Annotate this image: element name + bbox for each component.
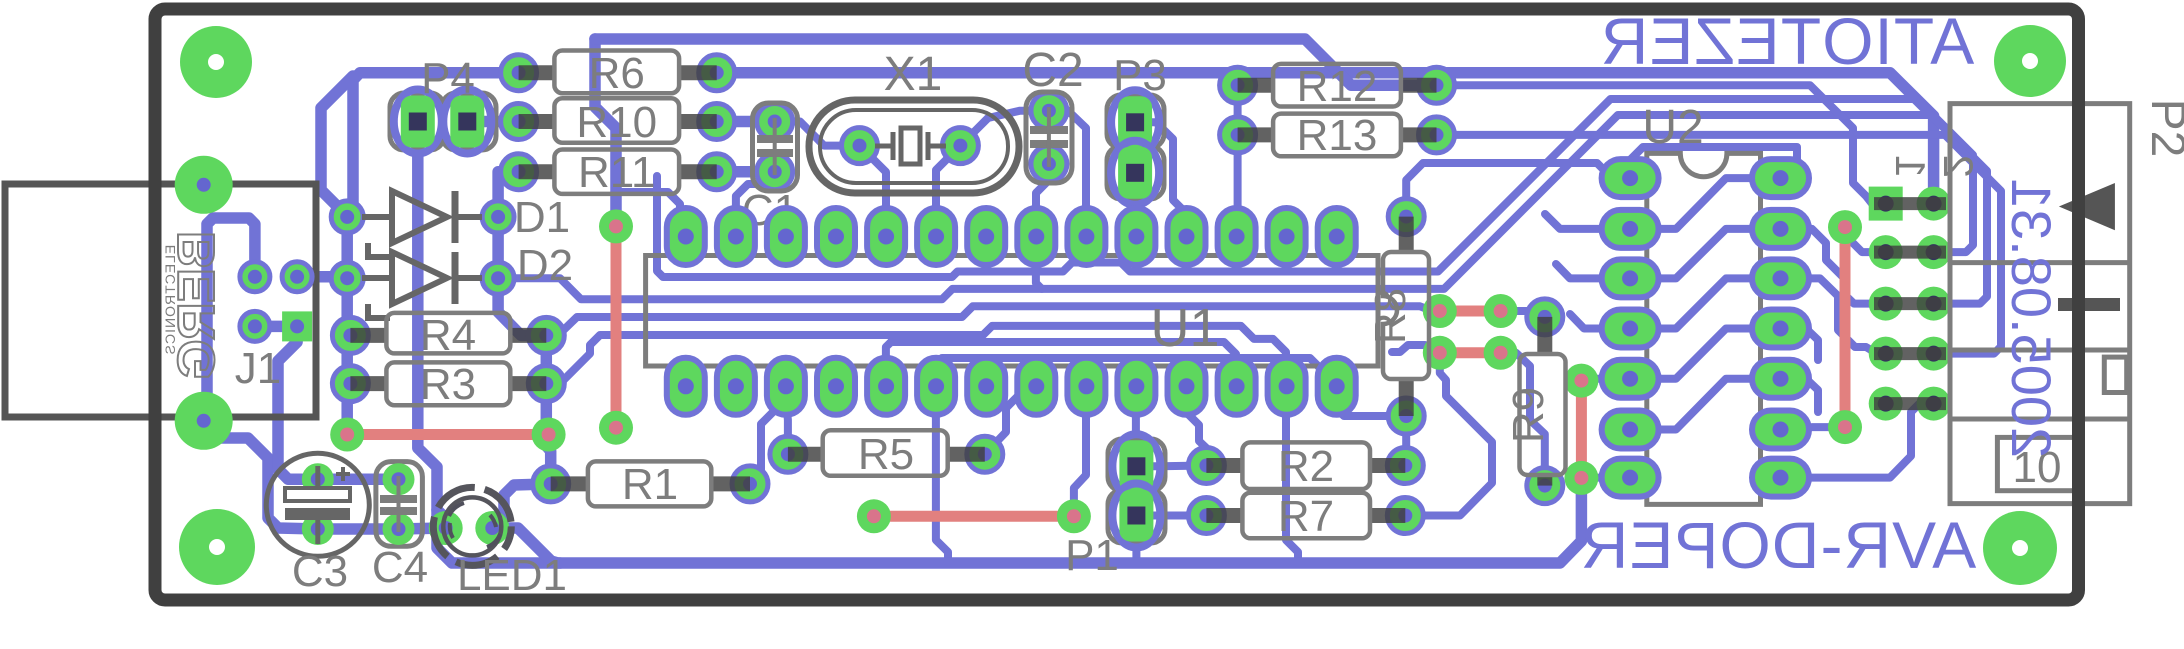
- wire R8 top to U2 l1: [1406, 163, 1630, 217]
- wire J1 shield to C3 bottom: [204, 423, 318, 529]
- wire U2 l5 to via: [1581, 379, 1630, 381]
- resistor R9 leads: [1537, 317, 1552, 356]
- red trace U2 vertical: [1840, 227, 1851, 427]
- wire P1-2 down: [1132, 516, 1140, 564]
- red trace R8 pair bottom: [1440, 347, 1501, 358]
- wire U2 l4 stub: [1570, 314, 1630, 329]
- red trace bottom to P1: [874, 511, 1074, 522]
- wire t1 feeder: [618, 192, 680, 237]
- svg-text:X1: X1: [884, 48, 943, 101]
- resistor R7 body: [1242, 493, 1370, 539]
- crystal X1 symbol: [875, 144, 893, 149]
- wire bus line 4: [546, 326, 1286, 386]
- via 8: [1484, 294, 1518, 328]
- svg-text:LED1: LED1: [457, 551, 567, 600]
- svg-text:P3: P3: [1113, 51, 1167, 100]
- svg-text:C2: C2: [1022, 44, 1083, 97]
- crystal X1 pads: [842, 128, 878, 164]
- wire C4 bottom to LED left: [399, 528, 446, 529]
- wire bottom rail: [492, 478, 1581, 563]
- wire b6 long down: [936, 386, 948, 563]
- pin label 2: [1935, 155, 1982, 178]
- mounting hole top-right: [1994, 25, 2066, 97]
- resistor R13 body: [1273, 114, 1401, 157]
- via 5: [857, 499, 891, 533]
- wire top rail branch: [321, 76, 353, 217]
- resistor R11 pads: [501, 154, 537, 190]
- connector J1 outline: [5, 184, 316, 417]
- capacitor C1 pads: [757, 104, 793, 140]
- wire X1 right to C2 top: [960, 111, 1049, 146]
- pin label 1: [1887, 155, 1934, 178]
- wire U2 r1 up: [1627, 147, 1797, 178]
- wire U2 diagonal 4: [1655, 329, 1756, 379]
- resistor R6 body: [554, 51, 679, 94]
- resistor R11 leads: [519, 164, 556, 179]
- wire via pair2 to R9 bottom: [1501, 353, 1545, 486]
- wire b3 down: [786, 386, 788, 454]
- svg-text:2: 2: [1935, 155, 1982, 178]
- wire R3 right to R1 left: [546, 384, 550, 484]
- resistor R10 leads: [519, 114, 556, 129]
- wire U2 diagonal 5: [1655, 379, 1756, 430]
- wire P1-1 to R2 left: [1136, 462, 1206, 471]
- via 3: [330, 418, 364, 452]
- red trace R9 side: [1576, 381, 1587, 478]
- resistor R2 leads: [1206, 458, 1244, 473]
- led LED1 outline: [433, 487, 511, 565]
- mounting hole top-left: [180, 26, 252, 98]
- header P1 pad 1: [1112, 434, 1160, 498]
- wire R2 right to R8 bottom: [1401, 416, 1410, 466]
- wire t8 stub: [1036, 237, 1042, 289]
- wire top rail left end: [347, 73, 518, 217]
- wire b13 down: [1286, 386, 1298, 563]
- svg-text:2005.08.31: 2005.08.31: [2000, 178, 2063, 458]
- connector P2 outline: [1950, 104, 2130, 504]
- svg-text:R3: R3: [420, 360, 476, 409]
- capacitor C2 pads: [1031, 93, 1067, 129]
- connector J1 ELECTRONICS text: [162, 245, 178, 356]
- capacitor C3 pads: [302, 463, 334, 495]
- connector P2 arrow: [2059, 183, 2115, 230]
- connector J1 pin pads: [240, 262, 270, 292]
- wire b9 to via: [1074, 386, 1086, 516]
- resistor R13 leads: [1238, 127, 1275, 142]
- ic U1 bottom pads: [667, 358, 705, 415]
- via 13: [1828, 210, 1862, 244]
- wire via pair to R9 top: [1501, 311, 1545, 328]
- via 10: [1484, 336, 1518, 370]
- resistor R12 body: [1273, 64, 1401, 107]
- wire J1 D- to D2: [297, 271, 347, 283]
- wire via to P2 row2: [1845, 227, 1886, 252]
- wire J1 sq pad to C3 top: [278, 326, 318, 479]
- wire bus line 2: [498, 115, 1987, 304]
- diode D2 symbol: [392, 252, 447, 304]
- header P4 pad 2: [443, 90, 491, 154]
- mounting hole bottom-left: [179, 509, 255, 585]
- wire top rail mid: [717, 73, 1934, 204]
- resistor R8 body: [1383, 252, 1429, 379]
- wire U2 r7 to P2 row5: [1781, 404, 1934, 478]
- resistor R1 leads: [551, 476, 590, 491]
- wire D1 right to D2 right: [492, 217, 504, 278]
- svg-text:R13: R13: [1297, 111, 1378, 160]
- wire P4-1 to LED wrap: [418, 122, 560, 564]
- svg-text:R11: R11: [578, 148, 655, 197]
- capacitor C4 pads: [383, 463, 415, 495]
- resistor R6 leads: [519, 65, 556, 80]
- mounting hole bottom-right: [1983, 511, 2057, 585]
- svg-text:AVR-DOPER: AVR-DOPER: [1580, 508, 1977, 582]
- wire R10 to C1 top: [717, 116, 775, 128]
- resistor R13 pads: [1220, 117, 1256, 153]
- resistor R5 leads: [788, 447, 824, 462]
- header P1 outline: [1108, 439, 1165, 491]
- wire U2 r3 diag: [1781, 278, 1886, 353]
- resistor R11 body: [554, 150, 679, 194]
- header P4 pad 1: [394, 90, 442, 154]
- connector P2 key rect: [2104, 357, 2126, 392]
- via 11: [1564, 364, 1598, 398]
- wire C1 bottom to U1 t2: [736, 172, 775, 237]
- wire P4-2 to R10: [467, 116, 518, 128]
- svg-text:R7: R7: [1278, 492, 1334, 541]
- ic U2 body: [1647, 153, 1761, 504]
- resistor R8 pads: [1388, 199, 1424, 235]
- wire R4 right to R3 right: [541, 335, 553, 383]
- svg-text:D2: D2: [517, 241, 573, 290]
- wire b10 to P1-1: [1132, 386, 1141, 466]
- svg-text:R6: R6: [589, 49, 645, 98]
- capacitor C2 outline: [1026, 92, 1072, 183]
- connector J1 BERG text: [168, 231, 226, 381]
- svg-text:R8: R8: [1366, 288, 1415, 344]
- wire R11 left to D1 right: [498, 172, 518, 217]
- resistor R4 pads: [332, 317, 368, 353]
- wire R13 col down to U1 t13: [1234, 85, 1242, 236]
- wire P3-1 to U1 t11: [1135, 122, 1186, 236]
- wire U2 r5 stub: [1781, 379, 1819, 412]
- capacitor C4 plates: [380, 495, 417, 503]
- header P4 outline: [390, 93, 444, 150]
- wire P1-2 to R7 left: [1136, 512, 1206, 520]
- resistor R12 pads: [1220, 67, 1256, 103]
- wire J1 pin3 stub: [255, 321, 297, 333]
- resistor R8 leads: [1399, 217, 1414, 254]
- header P3 pad 1: [1111, 90, 1159, 154]
- wire U2 diagonal 2: [1655, 229, 1756, 279]
- connector P2 leads: [1874, 197, 1946, 210]
- wire R11 to C1 bottom: [717, 166, 775, 178]
- via 4: [532, 418, 566, 452]
- resistor R10 body: [554, 98, 679, 142]
- resistor R4 body: [386, 313, 510, 354]
- wire R7 right diag: [1405, 353, 1492, 516]
- resistor R1 pads: [533, 466, 569, 502]
- wire U2 l7 to via: [1581, 474, 1630, 482]
- red trace R4 row: [347, 429, 548, 440]
- svg-text:P4: P4: [421, 54, 475, 103]
- ic U1 top pads: [667, 208, 705, 265]
- wire b11 down: [1186, 386, 1206, 465]
- wire X1 right to U1 t6: [936, 146, 960, 237]
- capacitor C3 outline: [266, 453, 369, 556]
- connector J1 shield pad bottom: [175, 392, 233, 450]
- resistor R9 body: [1520, 354, 1566, 475]
- wire U2 l2 stub: [1545, 214, 1630, 229]
- wire J1 D+ to top: [207, 218, 255, 418]
- via 6: [1057, 499, 1091, 533]
- wire U2 r4 stub: [1781, 329, 1819, 361]
- wire via to U2 r6: [1781, 427, 1846, 429]
- svg-text:U2: U2: [1642, 101, 1703, 154]
- via 12: [1564, 461, 1598, 495]
- resistor R7 leads: [1206, 508, 1244, 523]
- resistor R4 leads: [350, 328, 388, 343]
- wire bus line 3: [546, 306, 1440, 335]
- wire D2 right to R4 right: [498, 278, 546, 335]
- led LED1 arcs: [449, 503, 500, 547]
- resistor R6 pads: [501, 55, 537, 91]
- text AVR-DOPER: [1580, 508, 1977, 582]
- header P3 pad 2: [1111, 141, 1159, 205]
- wire P3-2 to U1 t10: [1131, 173, 1140, 237]
- capacitor C1 plates: [757, 135, 793, 143]
- svg-text:R4: R4: [420, 311, 476, 360]
- capacitor C1 outline: [753, 103, 798, 191]
- connector J1 shield pad top: [175, 156, 233, 214]
- wire C3 top to C4 top: [318, 473, 399, 485]
- via 9: [1423, 336, 1457, 370]
- svg-text:R10: R10: [576, 98, 657, 147]
- svg-text:R2: R2: [1278, 442, 1334, 491]
- connector P2 lead bar: [2058, 298, 2120, 311]
- resistor R3 body: [386, 362, 510, 405]
- connector P2 pin1 square pad: [1869, 187, 1903, 221]
- svg-text:C3: C3: [292, 547, 348, 596]
- wire U2 l3 stub: [1556, 264, 1630, 278]
- red trace R8 pair top: [1440, 306, 1501, 317]
- svg-text:R5: R5: [858, 430, 914, 479]
- ic U2 right pads: [1752, 159, 1809, 197]
- diode D2 pads: [331, 262, 363, 294]
- resistor R1 body: [588, 461, 711, 506]
- red trace D1 column: [611, 226, 622, 427]
- wire U2 diagonal 3: [1655, 278, 1756, 328]
- svg-text:P1: P1: [1065, 531, 1119, 580]
- header P3 outline: [1107, 95, 1164, 148]
- wire R5 right to b8: [985, 386, 1036, 454]
- wire bus line 5: [891, 342, 1236, 386]
- svg-text:1: 1: [1887, 155, 1934, 178]
- resistor R3 leads: [350, 376, 388, 391]
- wire R13 right to P2 row4: [1437, 135, 2002, 354]
- wire R1 right up: [750, 399, 786, 484]
- resistor R5 pads: [770, 436, 806, 472]
- text ATIOTEZER: [1600, 4, 1974, 78]
- resistor R2 pads: [1188, 448, 1224, 484]
- resistor R9 pads: [1527, 299, 1563, 335]
- resistor R12 leads: [1238, 78, 1275, 93]
- wire D-column vertical: [341, 217, 353, 435]
- svg-text:U1: U1: [1150, 298, 1219, 358]
- wire top rail corner down: [595, 39, 616, 226]
- wire C3 bottom to C4 bottom: [318, 523, 399, 535]
- led LED1 pads: [429, 511, 463, 545]
- ic U1 body: [646, 256, 1378, 367]
- via 14: [1828, 410, 1862, 444]
- via 7: [1423, 294, 1457, 328]
- wire LED right to R1 left: [492, 484, 550, 528]
- wire X1 left to U1 t5: [860, 146, 887, 237]
- capacitor C4 outline: [376, 462, 423, 547]
- diode D1 symbol: [392, 191, 447, 243]
- wire b5 stub: [886, 342, 891, 386]
- resistor R5 body: [823, 430, 948, 476]
- resistor R7 pads: [1188, 498, 1224, 534]
- svg-text:R9: R9: [1504, 387, 1553, 443]
- svg-text:ATIOTEZER: ATIOTEZER: [1600, 4, 1974, 78]
- wire U2 diagonal 1: [1655, 178, 1756, 229]
- wire C1 top to X1 left: [775, 122, 860, 146]
- via 2: [599, 411, 633, 445]
- via 1: [599, 209, 633, 243]
- crystal X1 outline: [809, 100, 1019, 193]
- capacitor C2 plates: [1030, 126, 1068, 134]
- wire bus line 6: [936, 358, 1336, 386]
- svg-text:R1: R1: [622, 460, 678, 509]
- wire U2 r2 to P2: [1781, 229, 1886, 304]
- wire R12 right to P2 pin1: [1437, 85, 1886, 203]
- wire b14 to R8 bottom: [1336, 386, 1406, 416]
- connector P2 pin10 box: [1997, 437, 2077, 490]
- wire t9 stub: [1082, 237, 1090, 263]
- ic U2 left pads: [1602, 159, 1659, 197]
- resistor R10 pads: [501, 104, 537, 140]
- header P1 pad 2: [1112, 484, 1160, 548]
- text date 2005.08.31: [2000, 178, 2063, 458]
- resistor R3 pads: [332, 366, 368, 402]
- diode D1 pads: [331, 201, 363, 233]
- resistor R2 body: [1242, 442, 1370, 489]
- capacitor C3 plates: [285, 488, 350, 501]
- wire top long rail: [595, 39, 1437, 85]
- wire C2 bottom to U1 t8: [1036, 164, 1049, 237]
- svg-text:P2: P2: [2141, 99, 2184, 158]
- wire C2 top to U1 t9: [1049, 111, 1086, 237]
- svg-text:R12: R12: [1297, 62, 1378, 111]
- wire bus to via bottom: [1392, 345, 1440, 353]
- wire LED left tap: [437, 510, 446, 528]
- connector P2 pads: [1917, 187, 1951, 221]
- wire bus line 1: [657, 99, 1973, 277]
- svg-text:J1: J1: [235, 344, 281, 393]
- svg-text:D1: D1: [514, 193, 570, 242]
- svg-text:ELECTRONICS: ELECTRONICS: [162, 245, 178, 356]
- svg-text:C4: C4: [372, 543, 428, 592]
